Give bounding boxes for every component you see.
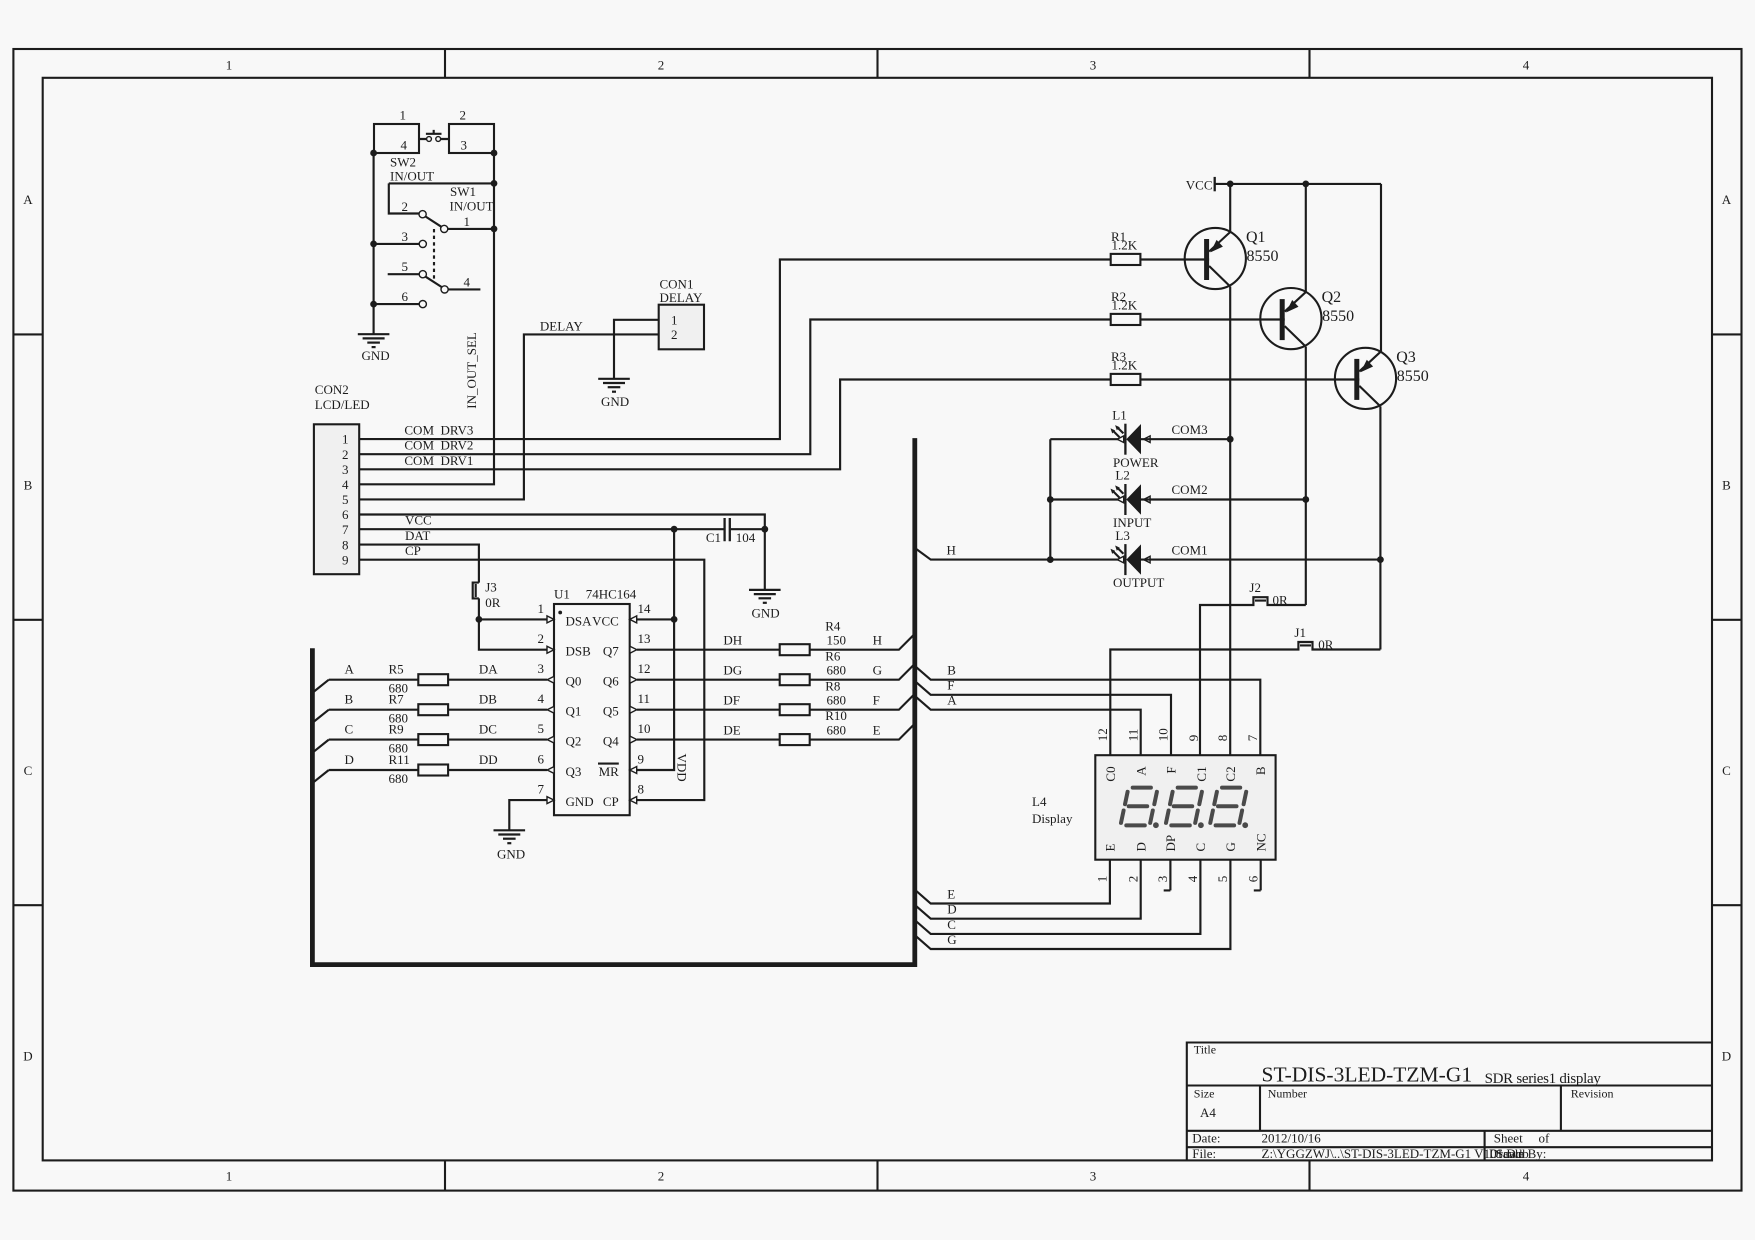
- wire Q1 collector to display pin8: [1229, 287, 1231, 756]
- resistor R3 1.2K: [1111, 374, 1141, 385]
- svg-text:Display: Display: [1032, 811, 1073, 826]
- svg-text:7: 7: [1245, 734, 1260, 741]
- svg-text:G: G: [1223, 842, 1238, 851]
- svg-text:B: B: [947, 663, 956, 678]
- svg-text:L3: L3: [1115, 528, 1129, 543]
- svg-text:11: 11: [1125, 729, 1140, 742]
- svg-text:B: B: [24, 478, 33, 493]
- svg-text:GND: GND: [752, 605, 780, 620]
- svg-text:9: 9: [1186, 735, 1201, 742]
- svg-text:GND: GND: [362, 348, 390, 363]
- svg-text:DC: DC: [479, 722, 497, 737]
- svg-text:680: 680: [389, 771, 409, 786]
- svg-text:C: C: [947, 917, 956, 932]
- svg-text:DP: DP: [1163, 835, 1178, 852]
- junction C1 right: [761, 526, 768, 533]
- resistor R9 680 (net C): [329, 739, 547, 741]
- pin arrows U1 left: [547, 616, 554, 623]
- svg-text:9: 9: [638, 752, 645, 767]
- jumper J2 0R: [1200, 597, 1306, 755]
- svg-text:13: 13: [638, 631, 651, 646]
- bus entry D: [313, 770, 329, 783]
- svg-text:Q4: Q4: [603, 734, 619, 749]
- svg-text:4: 4: [1523, 58, 1530, 73]
- wire C: bus to display pin4: [915, 860, 1201, 934]
- wire VCC net: CON2-7 to C1: [359, 528, 765, 530]
- svg-text:D: D: [345, 752, 354, 767]
- svg-text:2: 2: [538, 631, 545, 646]
- switch SW1 IN/OUT (slide): [374, 183, 494, 307]
- transistor Q1 8550: [1185, 228, 1279, 289]
- svg-text:IN_OUT_SEL: IN_OUT_SEL: [464, 332, 479, 409]
- svg-text:4: 4: [1185, 875, 1200, 882]
- svg-text:H: H: [947, 543, 956, 558]
- svg-text:2: 2: [460, 108, 467, 123]
- top pin labels: [1103, 766, 1268, 782]
- resistor R4 150 (net DH/H): [637, 634, 915, 650]
- svg-text:1: 1: [464, 214, 471, 229]
- svg-text:COM DRV1: COM DRV1: [404, 453, 473, 468]
- svg-text:104: 104: [736, 530, 756, 545]
- svg-text:DELAY: DELAY: [540, 318, 583, 333]
- wire J3 to U1 DSA/DSB: [479, 598, 547, 649]
- wire A: bus to display pin11: [915, 696, 1141, 755]
- pin arrows U1 right: [630, 616, 637, 623]
- svg-text:8: 8: [638, 782, 645, 797]
- junction DAT/DSA: [476, 616, 483, 623]
- svg-text:8: 8: [1215, 735, 1230, 742]
- bus entry C: [313, 740, 329, 753]
- ground GND (CON1): [598, 379, 630, 392]
- svg-text:8550: 8550: [1322, 308, 1354, 325]
- svg-text:Drawn By:: Drawn By:: [1489, 1146, 1546, 1161]
- connector CON2 LCD/LED: [314, 424, 359, 574]
- wire COM_DRV2: CON2-2 to R2: [359, 320, 1110, 455]
- svg-text:File:: File:: [1192, 1146, 1216, 1161]
- svg-text:1: 1: [400, 108, 407, 123]
- ground GND (SW2): [358, 334, 390, 347]
- display pin 3 stub (DP): [1164, 860, 1171, 891]
- svg-text:C: C: [1193, 843, 1208, 852]
- svg-text:4: 4: [464, 275, 471, 290]
- svg-text:MR: MR: [599, 764, 620, 779]
- svg-text:NC: NC: [1253, 833, 1268, 851]
- wire COM_DRV3: CON2-1 to R1: [359, 260, 1110, 440]
- svg-text:7: 7: [342, 522, 349, 537]
- svg-text:F: F: [873, 693, 880, 708]
- svg-text:2: 2: [658, 58, 665, 73]
- svg-text:3: 3: [402, 229, 409, 244]
- svg-text:H: H: [873, 633, 882, 648]
- svg-text:5: 5: [1215, 876, 1230, 883]
- svg-text:1: 1: [1095, 876, 1110, 883]
- wire D: bus to display pin2: [915, 860, 1141, 919]
- svg-text:Q2: Q2: [1322, 289, 1342, 306]
- svg-text:J1: J1: [1294, 625, 1306, 640]
- svg-text:1: 1: [226, 58, 233, 73]
- svg-text:LCD/LED: LCD/LED: [315, 397, 370, 412]
- svg-text:8550: 8550: [1397, 368, 1429, 385]
- svg-text:74HC164: 74HC164: [586, 587, 637, 602]
- svg-text:0R: 0R: [1273, 592, 1289, 607]
- wire C1 to ground: [764, 529, 766, 590]
- svg-text:3: 3: [1155, 876, 1170, 883]
- svg-text:GND: GND: [566, 794, 594, 809]
- svg-text:C2: C2: [1223, 766, 1238, 781]
- svg-text:Date:: Date:: [1192, 1131, 1220, 1146]
- junction VCC vertical: [671, 526, 678, 533]
- svg-text:680: 680: [827, 693, 847, 708]
- svg-text:U1: U1: [554, 587, 570, 602]
- svg-text:IN/OUT: IN/OUT: [450, 198, 494, 213]
- svg-text:DA: DA: [479, 662, 498, 677]
- svg-text:6: 6: [1245, 875, 1260, 882]
- svg-text:1: 1: [342, 432, 349, 447]
- svg-text:11: 11: [638, 691, 651, 706]
- wire LED feed vertical: [1050, 439, 1124, 559]
- svg-text:14: 14: [638, 601, 652, 616]
- svg-text:R9: R9: [389, 722, 404, 737]
- IC U1 74HC164: [538, 587, 652, 816]
- svg-text:6: 6: [538, 752, 545, 767]
- svg-text:G: G: [873, 663, 882, 678]
- wire VCC rail: [1215, 184, 1381, 352]
- svg-text:OUTPUT: OUTPUT: [1113, 575, 1164, 590]
- svg-text:CP: CP: [405, 543, 421, 558]
- resistor R11 680 (net D): [329, 769, 547, 771]
- svg-text:A: A: [1722, 192, 1732, 207]
- junction U1-14: [671, 616, 678, 623]
- svg-text:Revision: Revision: [1571, 1087, 1614, 1101]
- wire R3 to Q3 base: [1140, 378, 1359, 380]
- 7-segment digit 3: [1210, 788, 1248, 829]
- svg-text:Sheet: Sheet: [1494, 1131, 1523, 1146]
- svg-text:Number: Number: [1268, 1087, 1307, 1101]
- svg-text:DF: DF: [723, 693, 740, 708]
- 7-segment digit 1: [1121, 788, 1159, 829]
- svg-text:4: 4: [401, 138, 408, 153]
- wire DAT net: CON2-8 to J3: [359, 545, 479, 583]
- wire SW2 ground rail: [373, 153, 375, 334]
- svg-text:Q5: Q5: [603, 704, 619, 719]
- resistor R5 680 (net A): [329, 679, 547, 681]
- resistor R1 1.2K: [1111, 254, 1141, 265]
- svg-text:3: 3: [1090, 1169, 1097, 1184]
- svg-text:2: 2: [402, 199, 409, 214]
- svg-text:L4: L4: [1032, 794, 1047, 809]
- svg-text:2: 2: [671, 327, 678, 342]
- wire SW2-3 to IN_OUT_SEL: [359, 153, 494, 484]
- svg-text:DE: DE: [723, 722, 740, 737]
- transistor Q3 8550: [1335, 348, 1429, 409]
- svg-text:COM DRV3: COM DRV3: [404, 423, 473, 438]
- svg-text:GND: GND: [601, 394, 629, 409]
- svg-text:B: B: [345, 692, 354, 707]
- svg-text:VDD: VDD: [675, 754, 690, 782]
- svg-text:CP: CP: [603, 794, 619, 809]
- svg-text:C1: C1: [706, 530, 721, 545]
- svg-text:Size: Size: [1194, 1087, 1215, 1101]
- wire COM1: L3 to Q3 collector: [1141, 559, 1380, 561]
- bus entry A: [313, 680, 329, 693]
- svg-text:4: 4: [538, 691, 545, 706]
- svg-text:L2: L2: [1115, 468, 1129, 483]
- svg-text:VCC: VCC: [592, 614, 619, 629]
- svg-text:E: E: [947, 886, 955, 901]
- resistor R2 1.2K: [1111, 314, 1141, 325]
- wire COM2: L2 to Q2 collector: [1141, 498, 1306, 500]
- svg-text:Q0: Q0: [566, 674, 582, 689]
- resistor R7 680 (net B): [329, 709, 547, 711]
- svg-text:3: 3: [1090, 58, 1097, 73]
- svg-text:Q7: Q7: [603, 644, 619, 659]
- svg-text:D: D: [1722, 1048, 1731, 1063]
- wire CON1-1 to ground: [614, 320, 659, 379]
- jumper J3 0R: [473, 583, 479, 599]
- svg-text:R11: R11: [389, 752, 410, 767]
- svg-text:150: 150: [827, 633, 847, 648]
- svg-text:A: A: [1133, 766, 1148, 776]
- svg-text:1: 1: [538, 601, 545, 616]
- transistor Q2 8550: [1260, 288, 1354, 349]
- svg-text:SW1: SW1: [450, 184, 476, 199]
- display pin 6 stub (NC): [1254, 860, 1261, 891]
- svg-text:R5: R5: [389, 662, 404, 677]
- ground GND (C1): [749, 590, 781, 603]
- svg-text:A: A: [345, 662, 355, 677]
- svg-text:J3: J3: [485, 580, 497, 595]
- resistor R8 680 (net DF/F): [637, 694, 915, 710]
- svg-text:CON2: CON2: [315, 382, 349, 397]
- wire E: bus to display pin1: [915, 860, 1110, 904]
- svg-text:E: E: [1103, 844, 1118, 852]
- wire CP net: CON2-9 to U1-8: [359, 560, 704, 800]
- wire R2 to Q2 base: [1140, 318, 1284, 320]
- svg-text:Q1: Q1: [1246, 229, 1266, 246]
- svg-text:2: 2: [1125, 876, 1140, 883]
- svg-text:C: C: [1722, 763, 1731, 778]
- resistor R6 680 (net DG/G): [637, 664, 915, 680]
- bus entry B: [313, 710, 329, 723]
- LED L1 POWER: [1111, 407, 1159, 470]
- svg-text:IN/OUT: IN/OUT: [390, 168, 434, 183]
- switch SW2 IN/OUT (pushbutton): [374, 108, 494, 184]
- svg-text:3: 3: [342, 462, 349, 477]
- svg-text:J2: J2: [1249, 580, 1261, 595]
- svg-text:1: 1: [671, 313, 678, 328]
- svg-text:of: of: [1539, 1131, 1551, 1146]
- LED L2 INPUT: [1111, 468, 1152, 530]
- svg-text:VCC: VCC: [405, 513, 432, 528]
- svg-text:1.2K: 1.2K: [1112, 358, 1138, 373]
- svg-text:VCC: VCC: [1186, 178, 1213, 193]
- ground GND (U1): [494, 830, 526, 843]
- bus left vertical: [312, 438, 914, 965]
- wire VDD net: U1-14 to VCC and U1-9: [637, 529, 674, 770]
- svg-text:COM1: COM1: [1172, 542, 1208, 557]
- svg-text:2: 2: [658, 1169, 665, 1184]
- junction SW2-4: [370, 150, 377, 157]
- svg-text:4: 4: [342, 477, 349, 492]
- svg-text:7: 7: [538, 782, 545, 797]
- svg-text:L1: L1: [1112, 407, 1126, 422]
- wire COM3: L1 to Q1 collector: [1141, 438, 1230, 440]
- svg-text:C: C: [345, 722, 354, 737]
- svg-text:R8: R8: [825, 678, 840, 693]
- connector CON1 DELAY: [659, 305, 704, 350]
- wire B: bus to display pin7: [915, 666, 1261, 755]
- svg-text:3: 3: [538, 661, 545, 676]
- wire COM_DRV1: CON2-3 to R3: [359, 380, 1110, 470]
- svg-text:Q6: Q6: [603, 674, 619, 689]
- svg-text:COM2: COM2: [1172, 482, 1208, 497]
- wire R1 to Q1 base: [1140, 258, 1209, 260]
- svg-text:A4: A4: [1200, 1105, 1216, 1120]
- svg-text:G: G: [947, 932, 956, 947]
- svg-text:R4: R4: [825, 618, 841, 633]
- svg-text:B: B: [1253, 766, 1268, 775]
- svg-text:3: 3: [461, 138, 468, 153]
- svg-text:SW2: SW2: [390, 155, 416, 170]
- resistor R10 680 (net DE/E): [637, 724, 915, 740]
- svg-text:Q2: Q2: [566, 734, 582, 749]
- svg-text:E: E: [873, 722, 881, 737]
- svg-text:R6: R6: [825, 648, 841, 663]
- wire H: bus to LED L3 / COM1: [915, 548, 1125, 560]
- svg-text:5: 5: [402, 259, 409, 274]
- svg-text:COM3: COM3: [1172, 422, 1208, 437]
- wire Q3 collector to J1: [1379, 406, 1381, 649]
- svg-text:D: D: [1133, 842, 1148, 851]
- svg-text:5: 5: [538, 721, 545, 736]
- svg-text:COM DRV2: COM DRV2: [404, 438, 473, 453]
- 7-segment digit 2: [1166, 788, 1204, 829]
- svg-text:B: B: [1722, 478, 1731, 493]
- svg-text:GND: GND: [497, 847, 525, 862]
- svg-text:1.2K: 1.2K: [1112, 238, 1138, 253]
- svg-text:DD: DD: [479, 752, 498, 767]
- svg-text:680: 680: [827, 722, 847, 737]
- wire DELAY net: CON1-2 to CON2-5: [359, 334, 659, 499]
- junction SW1-1: [491, 180, 498, 187]
- wire Q2 collector to J2: [1305, 347, 1307, 605]
- svg-text:9: 9: [342, 552, 349, 567]
- svg-text:10: 10: [1156, 728, 1171, 741]
- svg-text:R7: R7: [389, 692, 405, 707]
- title block: [1187, 1043, 1712, 1161]
- wire F: bus to display pin10: [915, 681, 1171, 755]
- svg-text:A: A: [23, 192, 33, 207]
- svg-text:F: F: [947, 678, 954, 693]
- svg-text:0R: 0R: [1318, 637, 1334, 652]
- junction SW1-6: [370, 301, 377, 308]
- svg-text:Title: Title: [1194, 1043, 1216, 1057]
- svg-text:1: 1: [226, 1169, 233, 1184]
- svg-text:C1: C1: [1194, 766, 1209, 781]
- LED L3 OUTPUT: [1111, 528, 1165, 590]
- svg-text:5: 5: [342, 492, 349, 507]
- svg-text:8: 8: [342, 537, 349, 552]
- capacitor C1 104: [725, 518, 730, 541]
- svg-text:ST-DIS-3LED-TZM-G1: ST-DIS-3LED-TZM-G1: [1262, 1063, 1473, 1087]
- svg-text:C: C: [24, 763, 33, 778]
- svg-text:SDR series1 display: SDR series1 display: [1485, 1071, 1602, 1087]
- svg-text:0R: 0R: [485, 595, 501, 610]
- wire CON2-6 to ground: [359, 515, 765, 530]
- svg-text:2: 2: [342, 447, 349, 462]
- svg-text:10: 10: [638, 721, 651, 736]
- svg-text:4: 4: [1523, 1169, 1530, 1184]
- power VCC: [1214, 177, 1216, 191]
- svg-text:8550: 8550: [1247, 248, 1279, 265]
- svg-text:6: 6: [342, 507, 349, 522]
- display L4 (3-digit 7-segment): [1032, 728, 1276, 882]
- svg-text:Q3: Q3: [1396, 349, 1416, 366]
- svg-text:DELAY: DELAY: [660, 290, 703, 305]
- svg-text:680: 680: [827, 663, 847, 678]
- wire U1-7 to ground: [509, 800, 547, 830]
- svg-text:F: F: [1164, 766, 1179, 773]
- svg-text:DB: DB: [479, 692, 497, 707]
- svg-text:DSA: DSA: [566, 614, 593, 629]
- svg-text:C0: C0: [1103, 766, 1118, 781]
- svg-text:Q1: Q1: [566, 704, 582, 719]
- wire G: bus to display pin5: [915, 860, 1231, 949]
- svg-text:1.2K: 1.2K: [1112, 298, 1138, 313]
- svg-text:R10: R10: [825, 708, 847, 723]
- svg-text:6: 6: [402, 289, 409, 304]
- svg-text:DSB: DSB: [566, 644, 592, 659]
- svg-text:D: D: [947, 902, 956, 917]
- svg-text:D: D: [23, 1048, 32, 1063]
- svg-text:DG: DG: [723, 663, 742, 678]
- svg-text:Q3: Q3: [566, 764, 582, 779]
- svg-text:DH: DH: [723, 633, 742, 648]
- svg-text:DAT: DAT: [405, 528, 430, 543]
- junction SW2-3: [491, 150, 498, 157]
- svg-text:12: 12: [638, 661, 651, 676]
- svg-text:2012/10/16: 2012/10/16: [1262, 1131, 1322, 1146]
- junction SW1-3: [370, 241, 377, 248]
- svg-text:A: A: [947, 693, 957, 708]
- pin number labels U1: [538, 601, 545, 797]
- jumper J1 0R: [1110, 642, 1380, 755]
- svg-text:12: 12: [1095, 728, 1110, 741]
